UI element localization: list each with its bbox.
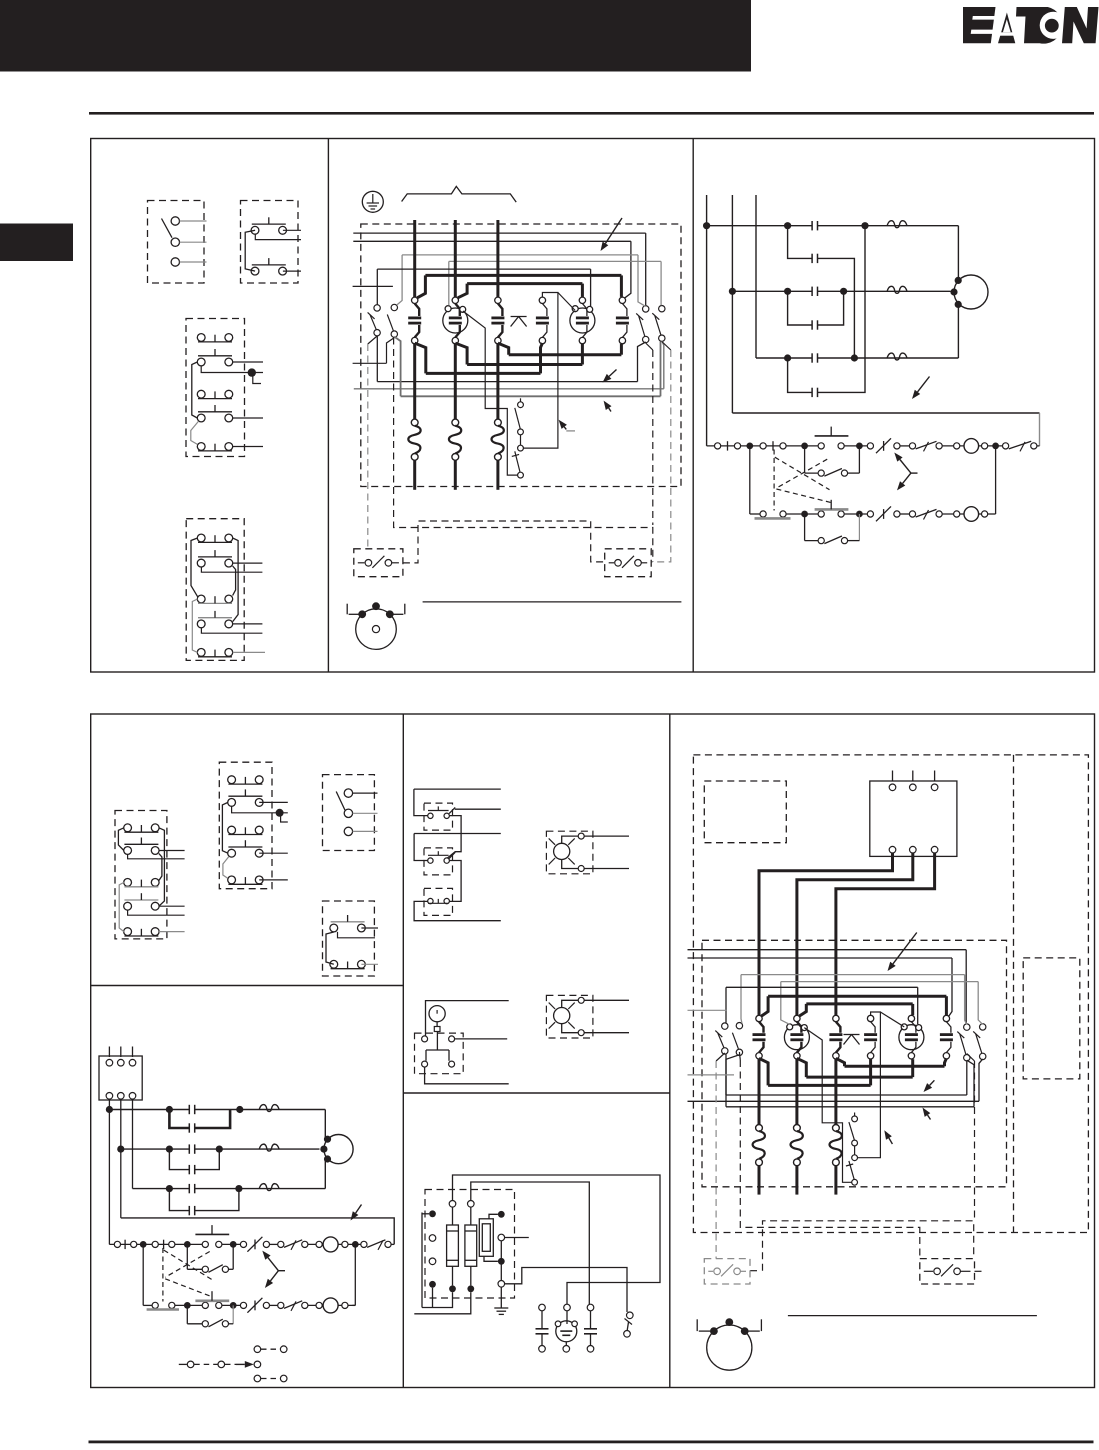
contactor F circle [784, 1025, 809, 1050]
bottom rule [89, 1441, 1094, 1444]
contactor F circle [443, 308, 468, 333]
supply line 2 [731, 195, 733, 413]
disconnect switches left [374, 305, 380, 311]
coil CR1 [964, 439, 979, 454]
fuse F1 [447, 1201, 459, 1293]
coil CR2 [964, 507, 979, 522]
arrow callout 3 [609, 408, 611, 412]
auxiliary interlock switch chain [518, 402, 524, 408]
phase row C [732, 290, 812, 292]
arrow callout inner 1 [930, 1080, 935, 1085]
contact row F [788, 358, 813, 392]
phase row E [756, 357, 812, 359]
phase tails below overloads [758, 1166, 761, 1195]
limit switch LS3 [414, 888, 501, 920]
control rung reverse [750, 446, 996, 521]
empty dashed box right [1023, 958, 1080, 1079]
contactor poles [412, 297, 418, 303]
coil CR4 [323, 1298, 338, 1313]
motor M4 [707, 1325, 752, 1370]
callout double arrow [894, 453, 917, 491]
circuit breaker block [99, 1047, 142, 1101]
K symbol [511, 316, 527, 318]
feeder stubs [688, 1009, 728, 1011]
panel 2 divider a [402, 714, 404, 1388]
interlock dashed left gray 2 [716, 1053, 725, 1259]
F coil sense wire [463, 311, 518, 475]
control feed line 2 [120, 1149, 122, 1218]
auxiliary contact box right [605, 549, 652, 577]
contact block 2NC [241, 201, 302, 284]
selector switch S1 (3-position) [148, 201, 207, 284]
panel 1 divider a [327, 139, 329, 673]
figure panel 1 frame [91, 139, 1095, 673]
disconnect switches right [964, 1024, 970, 1030]
battery symbol [555, 1304, 577, 1352]
pilot lamp PL2 [546, 995, 593, 1038]
arrow callout 4 [564, 427, 566, 430]
interlock dashed link inner [394, 338, 653, 562]
earth ground symbol [362, 191, 383, 212]
K coil sense wire 2 [858, 1012, 881, 1158]
top rule [89, 112, 1094, 115]
limit switch LS2 [414, 834, 501, 902]
auxiliary interlock switch chain [852, 1116, 858, 1122]
control rung forward 2 [109, 1225, 394, 1252]
coil CR3 [323, 1237, 338, 1252]
K coil sense wire [523, 293, 558, 449]
phase row 1 [108, 1099, 110, 1244]
overload heaters [413, 344, 416, 419]
interlock dashed link via switch R1 [646, 343, 653, 350]
pressure switch wiring [426, 1001, 509, 1036]
arrow callout control line [918, 377, 930, 392]
header black banner [0, 0, 751, 72]
motor M2 [957, 226, 959, 281]
pressure switch PS1 [415, 1001, 509, 1084]
contact row 1b [169, 1110, 189, 1129]
fuse and transformer dashed enclosure [425, 1190, 515, 1299]
overload heaters [758, 1059, 761, 1125]
auxiliary contact block B1 [115, 811, 185, 939]
limit switch LS1 lever [449, 807, 455, 813]
limit switch LS2 lever [449, 852, 455, 858]
contactor poles [756, 1015, 762, 1021]
limit switch LS1 [414, 789, 501, 858]
contact row 2b [169, 1149, 189, 1170]
reverse seal-in branch 2 [187, 1305, 233, 1327]
panel 2 middle column divider [403, 1092, 670, 1094]
disconnect switches left [722, 1023, 728, 1029]
toggle switch [624, 1312, 633, 1337]
terminal block TB1 [870, 771, 957, 857]
phase row 3 [132, 1099, 134, 1189]
interlock dashed inner 2 [739, 1052, 919, 1259]
secondary wiring [453, 1175, 661, 1312]
phase row A [707, 225, 813, 227]
feeder stubs [353, 285, 393, 287]
starter internals panel1 [387, 338, 395, 364]
auxiliary contact block B2 [219, 762, 287, 889]
power wiring 3-phase with motor M2 [703, 195, 988, 446]
figure panel 2 frame [91, 714, 1095, 1388]
interlock dashed cross link 2 [750, 1221, 974, 1271]
mechanical interlock dashed [774, 450, 830, 511]
arrow callout enclosure [893, 933, 917, 964]
panel 2 left column divider [91, 985, 404, 987]
phase row 2 [120, 1099, 122, 1149]
F coil sense wire 2 [804, 1028, 851, 1183]
separator line 2 [788, 1315, 1037, 1317]
phase tails below overloads [413, 460, 416, 490]
control transformer T1 [429, 1210, 529, 1287]
forward seal-in branch [805, 446, 860, 476]
Eaton logo [963, 7, 1099, 44]
separator line [423, 601, 682, 603]
interlock dashed cross link [403, 521, 605, 563]
empty dashed box upper left [704, 781, 786, 843]
contactor R circle [899, 1025, 924, 1050]
capacitor C2 [584, 1304, 597, 1352]
auxiliary contact box left 2 [704, 1259, 750, 1284]
panel 2 divider b [669, 714, 671, 1388]
fuse F2 [465, 1201, 477, 1293]
interlock dashed right 2 [967, 1054, 975, 1221]
ground symbol 2 [494, 1287, 508, 1314]
power wiring reversing with motor M3 [106, 1099, 353, 1244]
arrow callout feed [356, 1205, 362, 1214]
arrow callout inner 2 [928, 1115, 931, 1120]
transformer left bus wiring [414, 1213, 471, 1314]
capacitor C1 [536, 1304, 549, 1352]
contact row 3b [169, 1189, 189, 1211]
pilot lamp PL1 [546, 831, 593, 874]
feeder wires from terminal block [759, 853, 935, 1015]
contact block 2-pole [323, 901, 379, 976]
motor M1 [356, 609, 397, 650]
interlock dashed link left gray [368, 336, 377, 344]
contactor R circle [570, 308, 595, 333]
control feed line [732, 412, 1039, 414]
interlock dashed link right gray [662, 342, 671, 351]
control rung reverse 2 [143, 1244, 355, 1313]
forward seal-in branch 2 [187, 1244, 233, 1272]
starter inner dashed boundary [702, 940, 1007, 1187]
callout double arrow 2 [262, 1251, 285, 1288]
left edge tab [0, 224, 73, 262]
auxiliary contact block A2 (4 poles) [186, 519, 265, 661]
wiring harness brace [402, 186, 517, 202]
arrow callout wire [889, 1138, 893, 1144]
arrow callout 2 [609, 370, 616, 377]
disconnect switches right [643, 306, 649, 312]
motor M3 [324, 1135, 353, 1164]
enclosure outer dashed boundary [693, 755, 1088, 1233]
starter enclosure dashed boundary [361, 224, 681, 487]
arrow callout 1 [605, 218, 622, 244]
incoming phase lines [413, 220, 416, 297]
contact row D [788, 291, 813, 325]
enclosure inner dashed divider [1013, 755, 1015, 1233]
supply line 1 [706, 195, 708, 446]
selector switch S2 [323, 775, 378, 851]
auxiliary contact box right 2 [920, 1259, 975, 1284]
control rung forward [707, 427, 1040, 454]
bus loop wires [688, 949, 967, 951]
contact row B [788, 226, 813, 259]
auxiliary contact block A1 (4 poles) [186, 319, 263, 457]
mechanical interlock dashed 2 [163, 1248, 212, 1302]
wiring legend dashed links [179, 1346, 287, 1382]
K symbol [844, 1034, 860, 1036]
supply line 3 [755, 195, 757, 358]
panel 1 divider b [692, 139, 694, 673]
auxiliary contact box left [354, 549, 403, 577]
bus loop wires [353, 232, 645, 234]
node tap with junction dot [201, 366, 263, 373]
reverse seal-in branch [805, 514, 860, 544]
